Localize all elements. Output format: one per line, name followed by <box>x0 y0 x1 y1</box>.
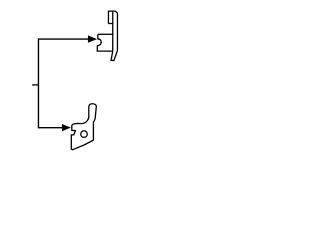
clip mid ledge <box>98 33 113 35</box>
clip inner fold line <box>112 12 114 51</box>
bracket outer boundary <box>71 104 96 150</box>
clip outer boundary <box>108 11 117 60</box>
leader line L-shape <box>38 39 88 128</box>
arrowhead to bottom part <box>62 124 71 131</box>
clip top step <box>108 23 112 25</box>
bracket hole <box>81 131 88 138</box>
top part: clip profile outline <box>97 11 117 60</box>
tick on vertical leader <box>32 84 38 86</box>
bottom part: bracket outline <box>71 104 96 150</box>
arrowhead to top part <box>88 35 97 42</box>
clip left edge with bump and bottom ledge <box>97 34 113 51</box>
